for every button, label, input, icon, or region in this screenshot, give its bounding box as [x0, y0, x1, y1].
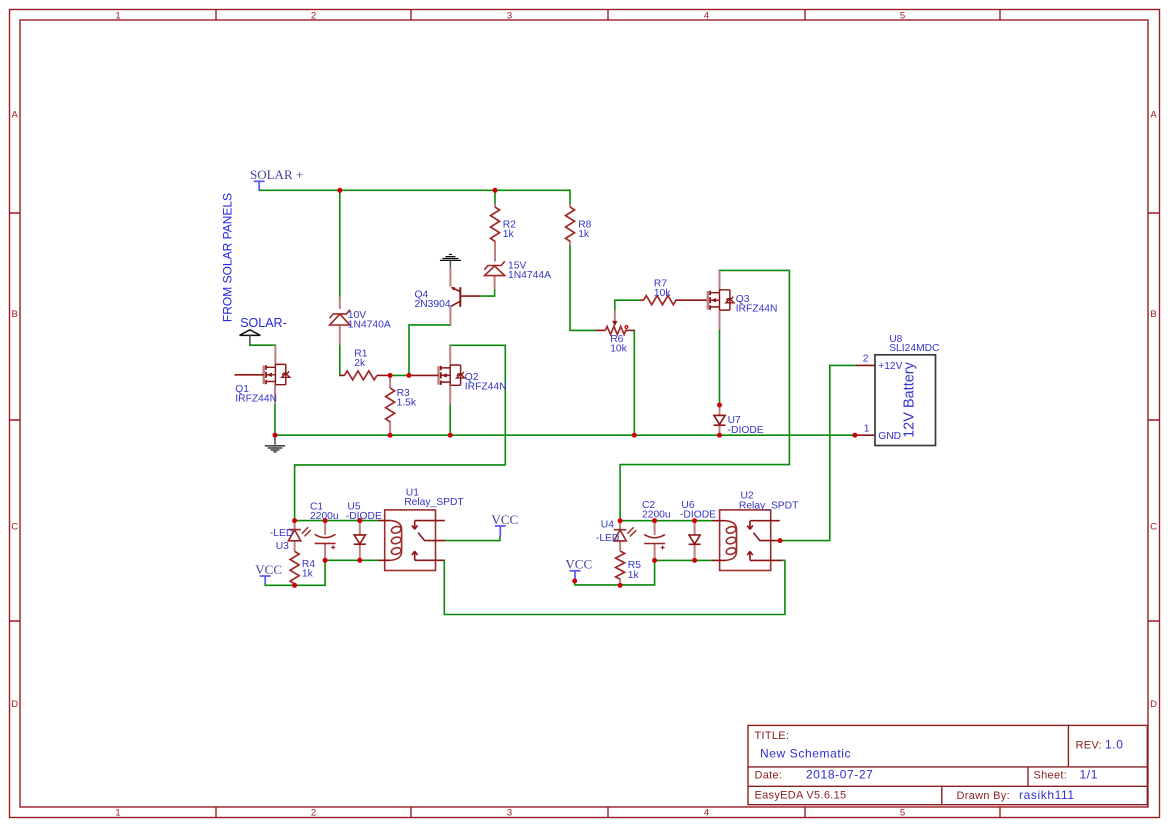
- svg-text:Relay_SPDT: Relay_SPDT: [739, 500, 799, 511]
- junction C2 top row: [652, 518, 657, 523]
- pin R3 top: [389, 375, 391, 388]
- resistor R1 2k (horizontal): [340, 371, 390, 380]
- junction Q2 gate node: [407, 373, 412, 378]
- wire SOLAR- to Q1 drain: [250, 344, 276, 346]
- junction U3 anode row: [292, 518, 297, 523]
- resistor R5 1k: [616, 551, 625, 579]
- junction relay U2 common / +12V: [778, 538, 783, 543]
- junction U6 top row: [692, 518, 697, 523]
- junction GND rail / R6: [632, 433, 637, 438]
- svg-text:SOLAR +: SOLAR +: [250, 167, 303, 182]
- svg-text:-DIODE: -DIODE: [680, 509, 716, 520]
- pin U5 bottom: [359, 544, 361, 560]
- pin C2 top: [654, 521, 656, 535]
- wire battery +12V: [780, 365, 856, 540]
- pin LED U4 top: [619, 521, 621, 530]
- wire Q3 drain loop to relay U2: [620, 270, 789, 520]
- junction SOLAR+ / D1: [337, 188, 342, 193]
- pin R6 wiper stem: [614, 311, 616, 321]
- svg-text:Drawn By:: Drawn By:: [957, 790, 1010, 802]
- svg-text:IRFZ44N: IRFZ44N: [736, 303, 778, 314]
- svg-text:A: A: [1150, 109, 1157, 120]
- junction U5 top row: [357, 518, 362, 523]
- svg-text:EasyEDA V5.6.15: EasyEDA V5.6.15: [755, 789, 847, 801]
- resistor R3 1.5k: [386, 388, 395, 422]
- junction GND rail / R3: [388, 433, 393, 438]
- pin Q3 drain: [719, 271, 721, 290]
- resistor R4 1k: [290, 551, 299, 583]
- wire relay U1 NC to relay U2 NC: [444, 560, 785, 614]
- pin U7 top: [719, 405, 721, 415]
- pin C1 bottom: [324, 543, 326, 560]
- pin R4 bottom: [294, 583, 296, 585]
- wire to zener D1 10V: [339, 190, 341, 297]
- svg-text:1k: 1k: [302, 569, 314, 580]
- wire left block bottom row: [325, 559, 378, 561]
- resistor R2 1k: [491, 207, 500, 241]
- svg-text:5: 5: [900, 808, 905, 819]
- pin R2 top: [494, 204, 496, 207]
- svg-text:FROM SOLAR PANELS: FROM SOLAR PANELS: [221, 193, 235, 322]
- pin LED U3 bottom to R4: [294, 541, 296, 552]
- junction U5 bottom row: [357, 558, 362, 563]
- junction C2 bottom row: [652, 558, 657, 563]
- svg-text:U3: U3: [276, 541, 289, 552]
- svg-text:B: B: [1150, 309, 1156, 320]
- pin LED U3 top: [294, 521, 296, 530]
- diode U5 -DIODE: [354, 535, 366, 544]
- pin C1 top: [324, 521, 326, 535]
- svg-text:1/1: 1/1: [1080, 768, 1098, 782]
- net flag SOLAR- (port triangle): [240, 330, 261, 345]
- relay U2 Relay_SPDT: [712, 510, 782, 571]
- pin Q2 source: [449, 385, 451, 405]
- svg-text:+12V: +12V: [878, 361, 902, 372]
- pin Q1 drain: [274, 345, 276, 364]
- net flag VCC (right block): [570, 571, 581, 581]
- pin LED U4 bottom to R5: [619, 541, 621, 551]
- svg-text:Sheet:: Sheet:: [1034, 770, 1068, 782]
- pin Q1 source: [274, 385, 276, 404]
- svg-text:1N4740A: 1N4740A: [348, 319, 391, 330]
- junction dots: [273, 188, 858, 588]
- svg-text:2N3904: 2N3904: [415, 299, 451, 310]
- pin zener D2 bottom: [494, 276, 496, 290]
- svg-text:D: D: [11, 699, 18, 710]
- ground (earth, inverted) above Q4: [440, 254, 461, 267]
- pin zener D1 top: [339, 297, 341, 309]
- LED U4: [614, 527, 637, 541]
- svg-text:5: 5: [900, 10, 905, 21]
- svg-text:2k: 2k: [354, 358, 366, 369]
- pin U6 top: [694, 521, 696, 535]
- junction VCC flag right block: [572, 579, 577, 584]
- wire VCC rail right block: [575, 560, 655, 585]
- svg-text:1: 1: [115, 808, 120, 819]
- pin U7 bottom: [719, 425, 721, 435]
- svg-text:1k: 1k: [578, 229, 590, 240]
- transistor Q2 IRFZ44N: [409, 365, 465, 385]
- svg-text:U4: U4: [601, 519, 614, 530]
- wire Q4 emitter to gate node: [409, 325, 450, 376]
- pin R8 top: [569, 204, 571, 207]
- svg-text:1k: 1k: [628, 570, 640, 581]
- svg-text:10k: 10k: [610, 344, 627, 355]
- svg-text:TITLE:: TITLE:: [755, 730, 790, 742]
- svg-text:Relay_SPDT: Relay_SPDT: [404, 497, 464, 508]
- wires (green nets): [250, 190, 856, 614]
- junction C1 bottom row: [323, 558, 328, 563]
- battery connector U8 SLI24MDC: [856, 355, 936, 446]
- pin Q4 emitter vertical: [449, 267, 451, 286]
- junction R4 / VCC rail: [292, 583, 297, 588]
- zener diode D1 10V 1N4740A: [330, 310, 350, 325]
- svg-text:-DIODE: -DIODE: [728, 425, 764, 436]
- pin U6 bottom: [694, 544, 696, 560]
- svg-text:B: B: [12, 309, 18, 320]
- svg-text:-DIODE: -DIODE: [346, 511, 382, 522]
- net flag VCC (left): [260, 576, 271, 583]
- pin C2 bottom: [654, 544, 656, 561]
- diode U6 -DIODE: [689, 535, 701, 544]
- resistor R7 10k (horizontal): [640, 296, 708, 305]
- net flag VCC (relay U1 common): [495, 526, 506, 537]
- svg-text:10k: 10k: [654, 288, 671, 299]
- wire right block bottom row: [655, 559, 712, 561]
- transistor Q1 IRFZ44N: [234, 364, 290, 384]
- title block: [748, 725, 1147, 804]
- diode U7 -DIODE: [714, 415, 726, 425]
- svg-text:1.5k: 1.5k: [397, 398, 417, 409]
- svg-text:1k: 1k: [503, 229, 515, 240]
- resistor R8 1k: [566, 207, 575, 241]
- wire R6 right to GND rail: [633, 330, 635, 435]
- junction U6 bottom row: [692, 558, 697, 563]
- pin R8 bottom: [569, 241, 571, 246]
- junction U4 anode row: [618, 518, 623, 523]
- svg-text:4: 4: [704, 10, 709, 21]
- junction R5 / VCC rail: [618, 583, 623, 588]
- LED U3: [288, 527, 311, 541]
- junction GND rail / Q2 source: [448, 433, 453, 438]
- svg-text:SLI24MDC: SLI24MDC: [889, 343, 940, 354]
- svg-text:C: C: [11, 522, 18, 533]
- zener diode D2 15V 1N4744A: [484, 261, 504, 275]
- wire node R1-R3-Q2: [390, 374, 409, 376]
- svg-text:D: D: [1150, 699, 1157, 710]
- svg-text:VCC: VCC: [565, 557, 592, 572]
- capacitor C2 2200u: [644, 534, 665, 549]
- svg-text:1.0: 1.0: [1105, 738, 1123, 752]
- wire GND rail: [275, 434, 855, 436]
- svg-text:2200u: 2200u: [642, 509, 671, 520]
- wire Q1 source to GND rail: [274, 404, 276, 436]
- svg-text:IRFZ44N: IRFZ44N: [235, 393, 277, 404]
- svg-text:2200u: 2200u: [310, 511, 339, 522]
- svg-text:SOLAR-: SOLAR-: [240, 316, 287, 330]
- svg-text:VCC: VCC: [255, 562, 282, 577]
- pin Q2 drain: [449, 345, 451, 365]
- wire R8 top drop: [569, 190, 571, 204]
- svg-text:GND: GND: [878, 431, 901, 442]
- wire VCC rail left block: [265, 560, 325, 585]
- junction GND rail / Q1 source: [273, 433, 278, 438]
- wire Q3 source to U7: [719, 329, 721, 405]
- junction C1 top row: [323, 518, 328, 523]
- pin U5 top: [359, 521, 361, 535]
- pin R3 bottom: [389, 421, 391, 435]
- wire Q4 base to zener 15V: [480, 289, 495, 296]
- pin zener D1 bottom: [339, 325, 341, 345]
- pin R2 bottom to zener: [494, 241, 496, 262]
- junction R1 / R3: [388, 373, 393, 378]
- pin R5 bottom: [619, 579, 621, 586]
- potentiometer R6 10k: [595, 321, 634, 335]
- transistor Q4 2N3904: [451, 287, 480, 307]
- svg-text:rasikh111: rasikh111: [1019, 788, 1075, 802]
- svg-text:2: 2: [311, 808, 316, 819]
- svg-text:12V Battery: 12V Battery: [902, 361, 918, 438]
- transistor Q3 IRFZ44N: [708, 290, 734, 310]
- svg-text:1: 1: [864, 423, 870, 434]
- relay U1 Relay_SPDT: [378, 510, 445, 571]
- net flag SOLAR+: [254, 181, 265, 190]
- svg-text:C: C: [1150, 522, 1157, 533]
- wire right block top row: [620, 520, 712, 522]
- svg-text:Date:: Date:: [755, 770, 783, 782]
- wire left block top row: [295, 520, 379, 522]
- junction Q3 source / U7: [717, 403, 722, 408]
- junction GND rail / U8 pin1: [852, 433, 857, 438]
- junction GND rail / U7: [717, 433, 722, 438]
- wire R6 wiper to R7: [615, 300, 640, 311]
- svg-text:New Schematic: New Schematic: [760, 746, 851, 760]
- wire zener D1 to R1: [339, 345, 341, 376]
- svg-text:IRFZ44N: IRFZ44N: [465, 381, 507, 392]
- wire Q2 source to GND rail: [449, 405, 451, 436]
- svg-text:3: 3: [507, 10, 512, 21]
- svg-text:-LED: -LED: [270, 528, 293, 539]
- component pins (light): [275, 204, 720, 586]
- svg-text:3: 3: [507, 808, 512, 819]
- svg-text:1: 1: [115, 10, 120, 21]
- wire R8 bottom to R6: [570, 245, 595, 330]
- svg-text:4: 4: [704, 808, 709, 819]
- wire Q2 drain to LED U3: [295, 345, 506, 520]
- svg-text:2018-07-27: 2018-07-27: [806, 768, 873, 782]
- capacitor C1 2200u: [315, 534, 336, 549]
- svg-text:VCC: VCC: [491, 512, 518, 527]
- svg-text:2: 2: [311, 10, 316, 21]
- svg-text:REV:: REV:: [1076, 740, 1102, 752]
- junction SOLAR+ / R2: [493, 188, 498, 193]
- svg-text:A: A: [12, 109, 19, 120]
- wire relay U1 common to VCC: [445, 537, 500, 541]
- pin Q4 collector vertical: [449, 306, 451, 325]
- svg-text:2: 2: [863, 354, 869, 365]
- ground (earth) under Q1: [265, 435, 285, 452]
- pin Q3 source: [719, 310, 721, 330]
- wire R2 top drop: [494, 190, 496, 204]
- svg-text:1N4744A: 1N4744A: [508, 270, 551, 281]
- svg-text:-LED: -LED: [596, 533, 619, 544]
- wire SOLAR+ top rail: [259, 189, 570, 191]
